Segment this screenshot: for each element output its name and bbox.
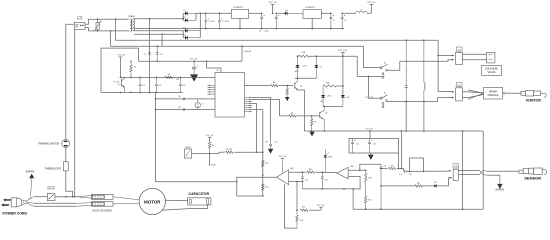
svg-text:D6: D6 <box>285 10 287 12</box>
svg-text:CN8: CN8 <box>454 166 457 168</box>
op-amp U4B <box>277 156 295 185</box>
svg-text:LED2: LED2 <box>327 96 331 98</box>
wire spark to ignitor <box>503 92 521 94</box>
wire U1 pin bus b <box>252 110 263 196</box>
svg-text:CON_AC: CON_AC <box>244 50 252 53</box>
svg-text:R22: R22 <box>417 183 420 185</box>
wire K2 cathode join <box>323 106 343 108</box>
label VCC smudge <box>365 97 374 99</box>
svg-text:R6: R6 <box>212 145 214 147</box>
capacitor C18 <box>321 172 328 189</box>
svg-text:4.7k: 4.7k <box>399 174 402 176</box>
capacitor C30 <box>380 164 387 209</box>
wire rail drop to sensor line <box>401 130 403 168</box>
wire vcc5 branch <box>139 61 243 73</box>
svg-text:MOTOR: MOTOR <box>144 199 161 204</box>
resistor R8 <box>270 82 278 87</box>
svg-text:C11: C11 <box>178 107 181 109</box>
net Vfb capacitor C15 ground <box>265 141 277 154</box>
op-amp U4A <box>337 165 354 179</box>
wire SW08 down <box>210 154 216 167</box>
wire crystal bus upper <box>155 98 215 100</box>
svg-text:DS18: DS18 <box>211 165 216 167</box>
plug housing connector 2 <box>92 202 114 207</box>
svg-text:VCC_5V: VCC_5V <box>190 58 198 60</box>
solenoid coil <box>487 52 495 63</box>
capacitor C8 <box>156 45 162 62</box>
svg-text:U2 KA7824: U2 KA7824 <box>233 6 243 9</box>
svg-text:Vfb: Vfb <box>265 142 268 144</box>
wire U4A lower input <box>348 177 360 189</box>
svg-text:C7: C7 <box>144 54 146 56</box>
resistor R4 <box>289 113 320 117</box>
relay contact K4-1 throw2 <box>382 73 384 79</box>
svg-text:D4: D4 <box>183 35 185 37</box>
resistor R7 <box>210 149 264 154</box>
svg-text:K4: K4 <box>384 62 386 64</box>
svg-text:R8: R8 <box>273 82 275 84</box>
regulator U2 <box>231 6 261 28</box>
net VCC_5V top <box>367 2 376 13</box>
svg-text:PLUG HOUSING: PLUG HOUSING <box>92 209 112 213</box>
diode D4 <box>183 35 200 40</box>
wire CN2 to spark <box>462 90 483 99</box>
svg-text:C2 25C0: C2 25C0 <box>222 21 229 23</box>
diode D3 <box>183 28 200 33</box>
sensor <box>519 168 547 181</box>
svg-text:VCC_5V: VCC_5V <box>366 129 374 131</box>
svg-text:C1 25V: C1 25V <box>209 21 216 23</box>
svg-text:VCC_5V: VCC_5V <box>317 205 325 207</box>
wire crystal bus lower <box>155 109 215 111</box>
wire U4A upper input <box>348 170 366 172</box>
capacitor C11 <box>178 107 185 111</box>
wire opto output <box>120 77 215 79</box>
svg-text:MODULE: MODULE <box>488 94 499 97</box>
wire secondary drop A <box>149 19 151 93</box>
svg-text:R5: R5 <box>314 122 316 124</box>
svg-text:C25: C25 <box>373 144 376 146</box>
plug housing label <box>92 209 112 213</box>
wire ground rail long <box>304 101 483 131</box>
plug housing connector 1 <box>92 194 114 199</box>
LED D13 <box>324 149 333 172</box>
svg-text:VCC_5V: VCC_5V <box>206 135 214 137</box>
svg-text:VCC_5V: VCC_5V <box>279 156 287 158</box>
wire line after switch <box>55 196 76 198</box>
wire U1 pin bus a <box>252 104 257 153</box>
crystal Y1 <box>195 99 204 110</box>
wire opamp minus input <box>289 181 304 183</box>
relay contact K4-2 <box>380 93 387 108</box>
wire housing to motor <box>113 197 140 204</box>
wire AC line from CON4 to left bus <box>66 24 75 139</box>
resistor R3 with ground <box>285 86 290 102</box>
svg-text:35C0: 35C0 <box>265 30 269 32</box>
wire right drop to CN <box>437 40 453 101</box>
wire bridge anode join lower <box>182 31 184 38</box>
ignitor <box>521 91 546 103</box>
wire opamp out loop <box>237 177 277 197</box>
relay contact K4-1 <box>380 62 387 71</box>
svg-text:IGNITOR: IGNITOR <box>526 98 541 102</box>
capacitor C12 <box>139 77 145 92</box>
svg-text:C21: C21 <box>305 180 308 182</box>
svg-text:VCC_24: VCC_24 <box>269 2 278 4</box>
capacitor C24B <box>368 139 376 154</box>
resistor R47 <box>302 169 337 173</box>
diode D1 <box>183 10 196 15</box>
transistor Q2 <box>320 107 328 132</box>
svg-text:Q2: Q2 <box>325 113 327 115</box>
svg-text:C6: C6 <box>344 20 346 22</box>
svg-text:R30: R30 <box>368 178 371 180</box>
solenoid valve box <box>482 66 502 76</box>
svg-text:R7 10K: R7 10K <box>226 149 233 151</box>
svg-text:D17: D17 <box>434 182 437 184</box>
svg-text:R14: R14 <box>302 206 305 208</box>
IC U1 <box>215 70 245 117</box>
svg-text:C8: C8 <box>160 54 162 56</box>
svg-text:C5: C5 <box>333 20 335 22</box>
capacitor C3 <box>259 13 265 33</box>
svg-text:SWITCH: SWITCH <box>47 189 55 191</box>
wire AC sense drop <box>241 45 243 61</box>
svg-text:R2: R2 <box>168 74 170 76</box>
capacitor C24A <box>351 139 359 154</box>
wire mains rail upper <box>116 19 439 41</box>
connector CON4 AC input <box>74 16 85 29</box>
svg-text:U3 KA7812: U3 KA7812 <box>305 6 315 9</box>
diode D2 <box>183 17 196 22</box>
capacitor C10 <box>178 96 185 100</box>
svg-text:R16: R16 <box>390 165 393 167</box>
wire bridge cathode join lower <box>200 13 202 38</box>
capacitor C5 <box>330 13 335 29</box>
connector CN08 <box>453 164 459 181</box>
wire AC bottom rail right <box>387 101 438 103</box>
wire sensor lower <box>380 183 434 187</box>
resistor R5 with ground <box>309 116 316 137</box>
svg-text:PC1: PC1 <box>114 82 118 84</box>
spark module box <box>484 87 503 99</box>
svg-text:C10: C10 <box>178 96 181 98</box>
svg-text:C15: C15 <box>275 142 278 144</box>
svg-text:SENSOR: SENSOR <box>524 176 541 181</box>
svg-text:R12: R12 <box>265 163 268 165</box>
capacitor C7 on drop <box>144 53 151 57</box>
switch SW08 <box>185 147 211 158</box>
svg-text:EARTH: EARTH <box>496 189 505 192</box>
svg-text:D9: D9 <box>320 66 322 68</box>
svg-text:L1: L1 <box>360 10 362 12</box>
svg-text:LED1: LED1 <box>303 66 307 68</box>
capacitor C9 with ground <box>190 61 198 81</box>
resistor R26 <box>296 210 303 228</box>
svg-text:Q1: Q1 <box>300 85 302 87</box>
wire CON4 to bottom rail <box>85 28 129 32</box>
svg-text:THERMOSTAT: THERMOSTAT <box>45 167 62 170</box>
U1 left pins <box>208 85 216 95</box>
opto-transistor PC1 <box>114 77 125 92</box>
resistor R1 <box>130 61 137 78</box>
label rail smudge <box>244 50 252 53</box>
svg-text:D1: D1 <box>183 10 185 12</box>
capacitor C4 <box>265 13 280 33</box>
resistor R30 <box>365 170 372 196</box>
wire U1 pin to Vfb <box>252 97 271 140</box>
wire ground bus y92 <box>101 92 183 94</box>
diode D17 <box>434 177 452 188</box>
wire gnd bus to opamp <box>156 181 238 183</box>
svg-text:AC-IN: AC-IN <box>77 18 83 21</box>
net VCC_24 <box>269 2 278 14</box>
diode D9 <box>314 56 322 78</box>
svg-text:VCC_12V: VCC_12V <box>338 50 348 52</box>
wire neutral bottom <box>34 203 76 206</box>
wire U1 to Q1 base <box>245 85 294 87</box>
wire line to switch <box>34 196 47 198</box>
svg-text:EARTH: EARTH <box>26 171 35 174</box>
svg-text:C30: C30 <box>383 166 386 168</box>
wire thermal to thermostat <box>65 147 67 161</box>
wire contact1b feed <box>357 56 382 76</box>
diode D10 <box>341 95 350 107</box>
wire loop top <box>399 153 424 171</box>
connector CN2 <box>452 83 462 101</box>
power cord plug <box>1 198 27 216</box>
capacitor C16 <box>405 40 408 101</box>
svg-text:CN5: CN5 <box>457 85 460 87</box>
resistor R12 <box>262 152 269 176</box>
connector CN1 <box>452 47 462 65</box>
net VCC_5V sw <box>206 135 214 142</box>
capacitor C1 <box>205 13 216 28</box>
resistor R13 <box>262 184 269 190</box>
svg-text:CAPACITOR: CAPACITOR <box>189 192 210 196</box>
svg-text:R13: R13 <box>265 187 268 189</box>
wire fan to housing <box>76 196 91 207</box>
wire sensor main <box>381 165 451 176</box>
wire CON4 to top rail <box>85 18 129 24</box>
resistor R2 <box>165 74 180 81</box>
resistor R31 <box>365 196 372 209</box>
wire cord fan <box>27 197 34 207</box>
svg-text:Y1: Y1 <box>202 104 204 106</box>
wire to D6 <box>276 12 285 14</box>
wire return loop <box>463 131 484 209</box>
relay coil K4B <box>323 83 343 88</box>
thermal switch <box>38 140 70 148</box>
svg-text:C13: C13 <box>158 85 161 87</box>
wire sensor twisted pair <box>458 170 519 175</box>
wire feedback column <box>296 181 298 211</box>
wire gnd bus mid <box>155 92 157 181</box>
LED LED1 <box>295 56 306 78</box>
svg-text:R31: R31 <box>368 200 371 202</box>
wire bottom rail analog <box>353 189 483 210</box>
svg-text:R1: R1 <box>134 67 136 69</box>
capacitor C2 <box>218 13 229 28</box>
svg-text:VCC_24: VCC_24 <box>118 55 125 57</box>
svg-text:R4: R4 <box>291 113 293 115</box>
on-off switch SW1 <box>47 186 55 200</box>
wire transformer secondary top <box>134 18 183 20</box>
reference cap box <box>349 130 399 153</box>
diode D6 <box>285 10 303 15</box>
wire motor to capacitor <box>162 200 208 210</box>
capacitor box <box>188 192 211 205</box>
thermostat <box>45 162 68 171</box>
transistor Q1 <box>295 78 305 131</box>
varistor Z1 <box>95 19 102 31</box>
inductor L1 <box>342 10 371 14</box>
wire K1 cathode join <box>295 78 316 80</box>
wire mains rail lower <box>111 31 364 46</box>
wire feedback box outline <box>101 48 139 92</box>
net VCC_12V <box>338 50 348 95</box>
relay coil K4A <box>297 51 358 58</box>
svg-text:LED3: LED3 <box>328 157 332 159</box>
svg-text:R26: R26 <box>300 220 303 222</box>
ground below cap box <box>368 153 374 160</box>
svg-text:CN6: CN6 <box>457 49 460 51</box>
LED LED2 <box>321 86 332 107</box>
wire secondary drop B <box>161 33 163 46</box>
wire center tap DC- rail <box>134 28 344 30</box>
svg-text:C24: C24 <box>356 144 359 146</box>
inductor L2 <box>424 40 425 101</box>
svg-text:C12: C12 <box>142 85 145 87</box>
wire opamp plus input <box>289 171 306 173</box>
motor M1 <box>139 188 165 214</box>
svg-text:K4: K4 <box>384 93 386 95</box>
svg-text:VCC_5V: VCC_5V <box>367 2 376 4</box>
wire U4A feedback <box>360 164 381 170</box>
svg-text:C14: C14 <box>182 85 185 87</box>
capacitor C6 <box>341 13 346 29</box>
resistor R6 <box>208 142 214 154</box>
earth ground at plug <box>26 171 35 197</box>
capacitor C13 <box>155 77 161 92</box>
wire transformer secondary bottom <box>134 30 183 32</box>
wire contact1 feed <box>363 46 380 67</box>
svg-text:TRANS: TRANS <box>128 15 135 18</box>
wire DC+ rail <box>196 13 231 15</box>
wire AC neutral from CON4 down <box>74 29 76 196</box>
svg-text:POWER CORD: POWER CORD <box>3 212 28 216</box>
wire CN1 to solenoid <box>462 54 486 60</box>
svg-text:SW08: SW08 <box>185 147 190 149</box>
capacitor C14 <box>179 77 185 92</box>
svg-text:VALVE: VALVE <box>488 71 496 74</box>
wire bridge anode join upper <box>182 13 184 20</box>
svg-text:C18: C18 <box>325 180 328 182</box>
U1 right pins <box>245 97 253 113</box>
wire contact2 feed <box>368 76 380 99</box>
wire thermostat down <box>66 171 73 197</box>
earth at sensor <box>496 175 505 191</box>
svg-text:THERMAL SWITCH: THERMAL SWITCH <box>38 143 60 146</box>
resistor R14 network <box>296 205 325 211</box>
transformer T1 <box>128 15 135 31</box>
svg-text:R47: R47 <box>309 169 312 171</box>
wire opamp down <box>284 184 297 228</box>
net VCC_5V mid <box>190 58 198 60</box>
regulator U3 <box>303 6 331 28</box>
wire U1 pin to Q2 base <box>252 99 289 115</box>
wire contact1 to CN1 <box>387 60 454 71</box>
wire cap gnd rail <box>303 188 361 190</box>
capacitor C21 <box>301 172 308 189</box>
wire secondary tap3 <box>134 33 183 35</box>
wire bridge cathode join upper <box>195 13 197 20</box>
svg-text:C3: C3 <box>259 30 261 32</box>
net VCC_24 in box <box>118 55 125 78</box>
svg-text:D10: D10 <box>346 97 349 99</box>
